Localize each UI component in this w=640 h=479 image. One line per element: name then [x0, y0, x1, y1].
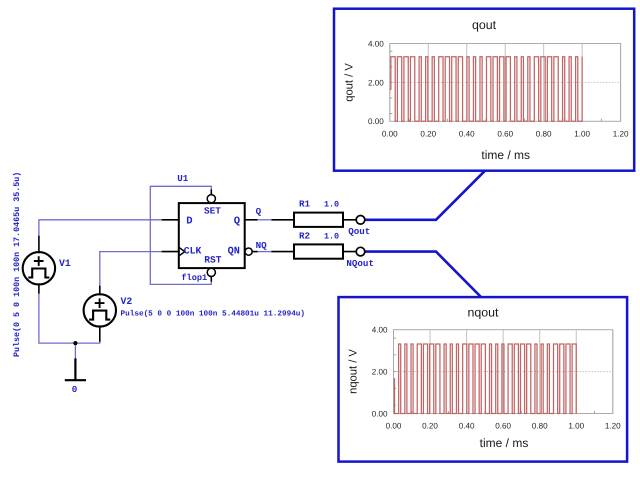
svg-text:0.00: 0.00	[368, 117, 384, 126]
svg-text:2.00: 2.00	[372, 368, 388, 377]
svg-text:NQ: NQ	[256, 240, 268, 251]
svg-text:V2: V2	[121, 296, 133, 307]
svg-text:U1: U1	[177, 173, 189, 184]
svg-text:0.40: 0.40	[459, 422, 475, 431]
svg-text:0.00: 0.00	[382, 130, 398, 139]
svg-text:SET: SET	[204, 206, 221, 217]
svg-text:Pulse(5 0 0 100n 100n 5.44801u: Pulse(5 0 0 100n 100n 5.44801u 11.2994u)	[121, 309, 306, 318]
svg-text:nqout: nqout	[467, 305, 499, 319]
svg-text:nqout / V: nqout / V	[348, 349, 360, 394]
svg-text:1.20: 1.20	[605, 422, 621, 431]
svg-text:2.00: 2.00	[368, 78, 384, 87]
svg-text:1.0: 1.0	[324, 200, 339, 210]
svg-text:4.00: 4.00	[368, 39, 384, 48]
svg-text:V1: V1	[59, 258, 71, 269]
svg-text:qout / V: qout / V	[344, 63, 356, 102]
svg-text:R2: R2	[299, 231, 310, 242]
svg-text:1.0: 1.0	[324, 232, 339, 242]
svg-text:1.00: 1.00	[568, 422, 584, 431]
svg-text:NQout: NQout	[346, 258, 374, 269]
svg-text:qout: qout	[472, 18, 497, 32]
svg-text:0.80: 0.80	[536, 130, 552, 139]
svg-text:0.00: 0.00	[386, 422, 402, 431]
svg-text:0.40: 0.40	[459, 130, 475, 139]
svg-text:4.00: 4.00	[372, 326, 388, 335]
svg-text:Q: Q	[234, 216, 240, 228]
svg-text:R1: R1	[299, 199, 311, 210]
svg-text:0: 0	[72, 384, 78, 395]
svg-text:Pulse(0 5 0 100n 100n 17.0465u: Pulse(0 5 0 100n 100n 17.0465u 35.5u)	[12, 172, 22, 357]
svg-text:Q: Q	[256, 206, 262, 217]
svg-text:0.60: 0.60	[497, 130, 513, 139]
svg-text:0.20: 0.20	[422, 422, 438, 431]
svg-text:0.20: 0.20	[420, 130, 436, 139]
svg-text:1.00: 1.00	[574, 130, 590, 139]
svg-text:CLK: CLK	[184, 246, 202, 257]
svg-text:0.80: 0.80	[532, 422, 548, 431]
svg-text:0.00: 0.00	[372, 409, 388, 418]
svg-text:time / ms: time / ms	[481, 148, 530, 162]
svg-text:flop1: flop1	[181, 273, 207, 283]
svg-text:D: D	[186, 216, 192, 228]
svg-text:1.20: 1.20	[613, 130, 629, 139]
svg-text:Qout: Qout	[348, 226, 370, 237]
svg-text:time / ms: time / ms	[480, 436, 529, 450]
svg-text:RST: RST	[204, 254, 222, 265]
svg-text:0.60: 0.60	[495, 422, 511, 431]
svg-text:QN: QN	[228, 246, 240, 257]
